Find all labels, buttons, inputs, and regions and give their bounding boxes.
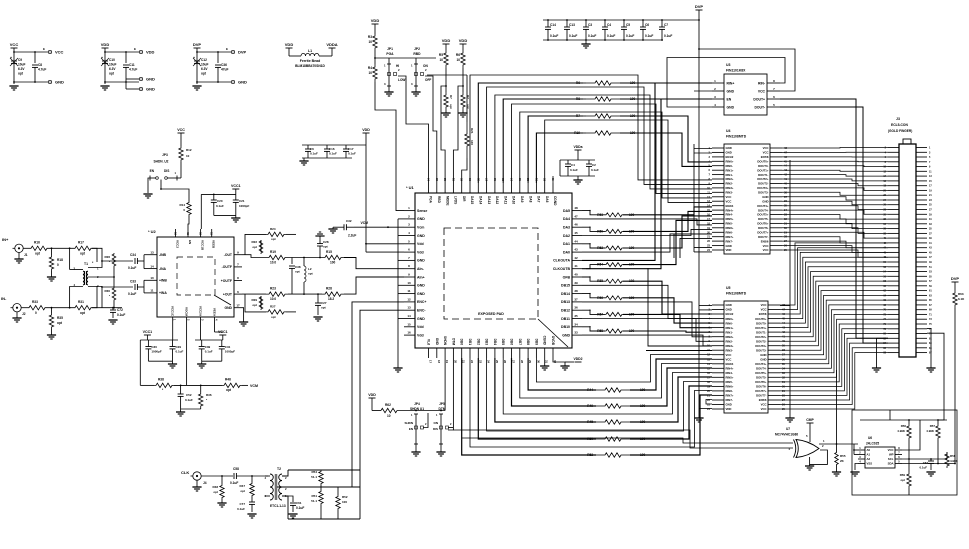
wire (DTM pin down) <box>448 358 453 430</box>
svg-text:C8: C8 <box>38 63 42 67</box>
J3 pin 42 <box>888 242 899 244</box>
svg-text:EN3/4: EN3/4 <box>726 362 734 366</box>
svg-text:RIN6-: RIN6- <box>726 231 733 235</box>
J3 pin 41 <box>916 242 927 244</box>
svg-text:DB2: DB2 <box>476 339 480 346</box>
U5 pin 44 DOUT0- <box>768 322 780 324</box>
svg-text:GND: GND <box>726 303 732 307</box>
resistor R6 100 <box>583 82 586 84</box>
U1 pin 39 DB15 <box>572 284 582 286</box>
svg-text:DOUT2-: DOUT2- <box>758 182 768 186</box>
svg-text:R18: R18 <box>57 258 63 262</box>
svg-text:WP: WP <box>889 453 894 457</box>
svg-text:IN-: IN- <box>1 296 7 301</box>
wire (primary bottom) <box>70 287 83 308</box>
J3 pin 49 <box>916 261 927 263</box>
U4 pin 34 DOUT4- <box>770 209 782 211</box>
U1 pin 14 GND <box>404 318 415 320</box>
svg-text:+INA: +INA <box>159 291 167 295</box>
wire <box>201 475 233 477</box>
svg-text:DA0: DA0 <box>563 250 570 254</box>
U5 pin 5 RIN0- <box>712 322 724 324</box>
svg-text:GND: GND <box>760 353 766 357</box>
U4 pin 1 GND <box>712 147 724 149</box>
J3 pin 67 <box>916 304 927 306</box>
svg-text:U4: U4 <box>726 129 731 133</box>
svg-text:EN7/8: EN7/8 <box>761 155 769 159</box>
svg-text:RIN5+: RIN5+ <box>726 376 734 380</box>
svg-text:C38: C38 <box>295 265 301 269</box>
ground <box>785 417 794 419</box>
wire (U5 to J3) <box>780 324 888 382</box>
svg-text:VCC: VCC <box>888 448 894 452</box>
wire <box>462 158 467 183</box>
wire (pair return) <box>582 335 712 346</box>
ground <box>192 486 201 488</box>
J3 pin 36 <box>888 228 899 230</box>
resistor R58 4.99K <box>946 452 948 459</box>
wire (U5 to J3) <box>780 252 888 314</box>
svg-text:0.1uF: 0.1uF <box>310 152 318 156</box>
J3 pin 73 <box>916 318 927 320</box>
U1 pin 20 DTM <box>452 348 454 358</box>
svg-text:E: E <box>134 47 136 51</box>
svg-text:JP3: JP3 <box>162 153 168 157</box>
svg-text:GND: GND <box>727 105 735 109</box>
svg-text:26: 26 <box>503 360 507 364</box>
svg-text:RIN-: RIN- <box>758 81 765 85</box>
U1 pin 52 DA8 <box>527 183 529 193</box>
wire SDA <box>902 463 955 465</box>
svg-text:R19: R19 <box>574 131 580 135</box>
wire (U4 rail left) <box>693 144 695 252</box>
wire <box>503 358 712 414</box>
testpoint GND <box>139 77 142 80</box>
svg-text:18: 18 <box>437 360 441 364</box>
svg-text:ON: ON <box>434 421 439 425</box>
U1 pin 21 DB0 <box>461 348 463 358</box>
svg-text:30: 30 <box>536 360 540 364</box>
svg-text:IN+: IN+ <box>2 237 9 242</box>
J3 pin 74 <box>888 318 899 320</box>
J3 pin 82 <box>888 337 899 339</box>
wire (U5 to J3) <box>780 272 888 333</box>
U1 pin 15 Vdd <box>404 326 415 328</box>
svg-text:RIN0-: RIN0- <box>726 321 733 325</box>
U4 pin 48 VCC <box>770 147 782 149</box>
J3 pin 48 <box>888 256 899 258</box>
J3 pin 80 <box>888 333 899 335</box>
svg-text:GND: GND <box>146 87 155 92</box>
svg-text:+: + <box>10 56 12 60</box>
svg-text:CLK: CLK <box>181 470 189 475</box>
wire <box>202 360 222 362</box>
svg-text:JP2: JP2 <box>414 47 420 51</box>
svg-text:R48: R48 <box>212 485 218 489</box>
wire <box>620 133 712 166</box>
wire (resistor input jog) <box>582 211 605 215</box>
U5 pin 10 RIN3+ <box>712 345 724 347</box>
resistor R27 opt <box>245 294 266 312</box>
J3 pin 87 <box>916 352 927 354</box>
J3 pin 63 <box>916 294 927 296</box>
svg-text:GND: GND <box>726 244 732 248</box>
J3 pin 76 <box>888 323 899 325</box>
wire (DA fan) <box>512 104 713 193</box>
svg-text:0.1uF: 0.1uF <box>550 34 558 38</box>
ground <box>176 411 185 413</box>
wire <box>282 470 288 476</box>
J3 pin 18 <box>888 185 899 187</box>
wire <box>242 255 266 258</box>
wire <box>528 358 596 390</box>
U1 pin 31 CGND <box>544 348 546 358</box>
U5 pin 3 EN1/2 <box>712 313 724 315</box>
wire <box>146 335 148 340</box>
U5 pin 30 DOUT6- <box>768 385 780 387</box>
wire <box>495 358 596 422</box>
U5 pin 29 DOUT7+ <box>768 390 780 392</box>
svg-text:DOUT7-: DOUT7- <box>758 235 768 239</box>
wire (U4 to J3) <box>782 156 888 158</box>
resistor R45 100 <box>596 420 630 424</box>
wire <box>927 333 944 420</box>
svg-text:DA11: DA11 <box>503 196 507 204</box>
U2 pin 13 -INB <box>149 254 157 256</box>
U1 pin 59 DA15 <box>469 183 471 193</box>
wire (U5 right rail) <box>789 160 791 416</box>
svg-text:RIN2+: RIN2+ <box>726 335 734 339</box>
svg-text:R29: R29 <box>251 298 257 302</box>
resistor R14 <box>187 201 191 216</box>
svg-text:R14: R14 <box>179 203 185 207</box>
svg-text:EN1/2: EN1/2 <box>726 312 734 316</box>
svg-text:43: 43 <box>574 248 578 252</box>
svg-text:RIN1+: RIN1+ <box>726 326 734 330</box>
wire <box>105 51 139 53</box>
U5 pin 6 RIN1+ <box>712 327 724 329</box>
svg-text:VOCM: VOCM <box>185 307 189 317</box>
wire (U4 to J3) <box>782 160 888 163</box>
U2 pin 10 +INB <box>149 279 157 281</box>
svg-text:DB12: DB12 <box>561 309 570 313</box>
U1 pin 9 AIn+ <box>404 276 415 278</box>
resistor R16 <box>30 246 48 250</box>
wire <box>954 282 956 290</box>
wire (U4 to J3) <box>782 192 888 195</box>
svg-text:10.0: 10.0 <box>270 297 276 301</box>
svg-text:10: 10 <box>150 276 154 280</box>
U1 pin 19 SHDN <box>444 348 446 358</box>
capacitor C3 0.1uF <box>585 20 587 27</box>
svg-text:R36: R36 <box>206 393 212 397</box>
U4 pin 8 RIN2+ <box>712 178 724 180</box>
svg-text:DOUT5-: DOUT5- <box>756 376 766 380</box>
svg-text:C20: C20 <box>217 199 223 203</box>
capacitor C58 0.1uF <box>233 473 235 479</box>
svg-text:FIN1101K8X: FIN1101K8X <box>726 69 746 73</box>
J3 pin 17 <box>916 185 927 187</box>
svg-text:RIN7+: RIN7+ <box>726 235 734 239</box>
svg-text:C6: C6 <box>310 147 314 151</box>
svg-text:RIN6-: RIN6- <box>726 389 733 393</box>
wire <box>512 358 597 406</box>
wire (cap row top rail) <box>543 19 699 21</box>
testpoint VCC <box>48 50 51 53</box>
svg-text:6.1K: 6.1K <box>958 297 965 301</box>
svg-text:MC74VHC1G86: MC74VHC1G86 <box>775 433 798 437</box>
svg-text:R3: R3 <box>368 35 372 39</box>
J3 pin 53 <box>916 271 927 273</box>
svg-text:RIN6+: RIN6+ <box>726 226 734 230</box>
inductor L2 opt <box>303 258 305 267</box>
U5 pin 33 DOUT5+ <box>768 372 780 374</box>
U5 pin 17 RIN5+ <box>712 376 724 378</box>
svg-text:10uF: 10uF <box>201 63 208 67</box>
svg-text:C58: C58 <box>233 467 239 471</box>
capacitor C6 0.1uF <box>307 145 309 149</box>
svg-text:C5: C5 <box>626 23 630 27</box>
wire <box>265 475 270 477</box>
wire <box>397 410 445 412</box>
U1 pin 37 DB13 <box>572 301 582 303</box>
svg-text:GND: GND <box>417 217 425 221</box>
svg-text:VDD: VDD <box>368 393 376 397</box>
op-amp U3 FIN1101K8X <box>724 74 767 115</box>
U1 pin 50 DA6 <box>544 183 546 193</box>
capacitor C38 opt <box>291 258 293 265</box>
resistor R54 <box>319 470 323 485</box>
svg-text:RIN1-: RIN1- <box>726 330 733 334</box>
svg-text:45: 45 <box>574 231 578 235</box>
svg-text:ETC1-1-13: ETC1-1-13 <box>270 504 286 508</box>
wire (U4 to J3) <box>782 232 888 238</box>
svg-text:GND: GND <box>562 333 570 337</box>
svg-text:DA14: DA14 <box>479 196 483 204</box>
svg-text:VCC: VCC <box>758 89 766 93</box>
svg-text:DTM: DTM <box>451 338 455 345</box>
U6 pin 2 A1 <box>858 454 865 456</box>
resistor R57 100 <box>605 312 623 316</box>
svg-text:opt: opt <box>295 270 300 274</box>
J3 pin 50 <box>888 261 899 263</box>
svg-text:C2: C2 <box>592 163 596 167</box>
svg-text:46: 46 <box>574 223 578 227</box>
svg-text:DOUT3-: DOUT3- <box>758 191 768 195</box>
svg-text:ON: ON <box>423 64 428 68</box>
resistor R26 <box>112 253 116 267</box>
svg-text:6.3V: 6.3V <box>201 67 208 71</box>
resistor R19 <box>266 255 288 259</box>
svg-text:RIN4+: RIN4+ <box>726 208 734 212</box>
J3 pin 57 <box>916 280 927 282</box>
svg-text:GND: GND <box>726 308 732 312</box>
U2 pin 6 +OUT <box>234 293 242 295</box>
svg-text:RBD: RBD <box>413 52 421 56</box>
wire <box>374 50 376 64</box>
wire <box>344 258 404 269</box>
wire (U5 to J3) <box>780 248 888 310</box>
svg-text:RIN6+: RIN6+ <box>726 385 734 389</box>
U1 pin 58 DA14 <box>477 183 479 193</box>
wire <box>630 359 712 390</box>
svg-text:Sense: Sense <box>417 209 427 213</box>
U5 pin 46 EN7/8 <box>768 313 780 315</box>
U3 pin 5 DOUT- <box>767 106 780 108</box>
wire (resistor output) <box>623 216 712 248</box>
ground <box>384 91 393 93</box>
svg-text:DA12: DA12 <box>495 196 499 204</box>
ground <box>143 193 152 195</box>
wire <box>288 293 322 295</box>
U1 pin 17 VLd <box>428 348 430 358</box>
U5 pin 35 DOUT4+ <box>768 363 780 365</box>
resistor R63 <box>953 290 957 308</box>
svg-text:EXPOSED PAD: EXPOSED PAD <box>478 312 504 316</box>
wire (VDD to U1 Vdd pins) <box>365 145 367 252</box>
wire (U4 to J3) <box>782 206 888 210</box>
svg-text:100: 100 <box>342 500 347 504</box>
wire <box>214 214 236 216</box>
svg-text:37: 37 <box>574 297 578 301</box>
wire <box>14 81 48 83</box>
wire <box>174 384 222 386</box>
U6 pin 4 VSS <box>858 463 865 465</box>
wire (U3 DOUT-) <box>780 107 888 343</box>
svg-text:* U2: * U2 <box>148 229 157 234</box>
svg-text:DOUT1+: DOUT1+ <box>755 326 766 330</box>
svg-text:L2: L2 <box>308 267 312 271</box>
svg-text:10: 10 <box>186 154 190 158</box>
resistor R29 opt <box>260 296 262 308</box>
resistor R55 102 <box>605 279 623 283</box>
U1 pin 16 Vdd <box>404 334 415 336</box>
ground <box>411 451 420 453</box>
wire (resistor input jog) <box>582 227 605 231</box>
op-amp U2 THS4509 <box>157 237 234 317</box>
wire (rail to VCM row) <box>139 340 141 385</box>
J3 pin 75 <box>916 323 927 325</box>
wire <box>577 150 579 160</box>
wire <box>809 423 811 442</box>
J3 pin 21 <box>916 194 927 196</box>
J3 pin 13 <box>916 175 927 177</box>
svg-text:SCL: SCL <box>888 457 894 461</box>
U5 pin 19 RIN6+ <box>712 385 724 387</box>
resistor R8 100 <box>583 98 586 100</box>
svg-text:VCC: VCC <box>726 358 732 362</box>
U5 pin 9 RIN2- <box>712 340 724 342</box>
svg-text:100: 100 <box>470 140 474 145</box>
svg-text:R55: R55 <box>840 454 846 458</box>
J3 pin 9 <box>916 166 927 168</box>
wire (U5 to J3) <box>780 300 888 359</box>
svg-text:C14: C14 <box>550 23 556 27</box>
svg-text:R58: R58 <box>950 454 956 458</box>
U3 pin 4 GND <box>712 106 724 108</box>
svg-text:VCC: VCC <box>763 146 769 150</box>
svg-text:* U1: * U1 <box>406 185 415 190</box>
wire <box>478 358 596 439</box>
svg-text:SHDN_U2: SHDN_U2 <box>154 160 169 164</box>
svg-text:R59: R59 <box>900 473 906 477</box>
J3 pin 77 <box>916 328 927 330</box>
svg-text:0.1uF: 0.1uF <box>329 152 337 156</box>
J3 pin 26 <box>888 204 899 206</box>
svg-text:R45: R45 <box>587 420 593 424</box>
svg-text:EN1/2: EN1/2 <box>726 155 734 159</box>
svg-text:R23: R23 <box>270 287 276 291</box>
resistor R62 <box>381 408 397 412</box>
wire <box>699 305 712 307</box>
wire <box>462 358 596 455</box>
U1 pin 46 DA3 <box>572 226 582 228</box>
wire (U5 to J3) <box>780 319 888 377</box>
svg-text:RIN3+: RIN3+ <box>726 344 734 348</box>
svg-text:opt: opt <box>323 245 328 249</box>
wire <box>148 178 150 193</box>
svg-text:RIN7+: RIN7+ <box>726 394 734 398</box>
J3 pin 34 <box>888 223 899 225</box>
J3 pin 15 <box>916 180 927 182</box>
capacitor C7 0.1uF <box>661 20 663 27</box>
svg-text:VCC: VCC <box>726 199 732 203</box>
svg-text:18.2: 18.2 <box>328 297 334 301</box>
resistor R21 <box>465 122 469 158</box>
U4 pin 37 GND <box>770 196 782 198</box>
resistor R52 100 <box>596 453 630 457</box>
J3 pin 28 <box>888 209 899 211</box>
J3 pin 40 <box>888 237 899 239</box>
svg-text:0.1uF: 0.1uF <box>216 204 224 208</box>
wire (ENC- down) <box>360 310 404 519</box>
svg-text:VCC: VCC <box>55 50 64 55</box>
U1 pin 29 DB8 <box>527 348 529 358</box>
svg-text:RIN0+: RIN0+ <box>726 317 734 321</box>
resistor R23 <box>266 292 288 296</box>
U4 pin 2 GND <box>712 151 724 153</box>
svg-text:R56: R56 <box>597 296 603 300</box>
svg-text:62: 62 <box>443 177 447 181</box>
junction <box>196 51 198 53</box>
svg-text:4.99K: 4.99K <box>950 459 959 463</box>
svg-text:DA2: DA2 <box>563 234 570 238</box>
wire (resistor output) <box>623 207 712 215</box>
wire (DA fan) <box>545 120 712 202</box>
U5 pin 43 DOUT1+ <box>768 327 780 329</box>
U1 pin 18 GND <box>436 348 438 358</box>
svg-text:E: E <box>226 47 228 51</box>
wire <box>181 408 201 410</box>
capacitor C2 0.1uF <box>588 160 590 164</box>
J3 pin 64 <box>888 294 899 296</box>
svg-text:RIN3-: RIN3- <box>726 348 733 352</box>
svg-text:Vdd: Vdd <box>417 325 424 329</box>
U1 pin 35 DB11 <box>572 318 582 320</box>
wire <box>143 280 145 293</box>
wire <box>620 116 712 162</box>
wire (resistor output) <box>623 331 712 332</box>
wire (secondary top) <box>88 248 102 267</box>
svg-text:CLKOUTB: CLKOUTB <box>553 267 571 271</box>
svg-text:J2: J2 <box>22 312 26 316</box>
capacitor C63 0.1uF <box>930 459 932 461</box>
U1 pin 51 DA7 <box>535 183 537 193</box>
wire <box>487 358 712 431</box>
J3 pin 79 <box>916 333 927 335</box>
resistor R50 100 <box>605 229 623 233</box>
svg-text:14: 14 <box>150 264 154 268</box>
